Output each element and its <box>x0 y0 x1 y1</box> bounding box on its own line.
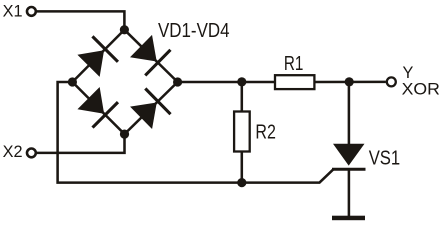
wire VS1 cathode lead to ground <box>348 169 351 216</box>
wire left node to bottom rail and gate of VS1 <box>58 82 334 183</box>
terminal Y <box>387 77 396 86</box>
wire bridge arm left-top <box>72 30 124 82</box>
ground <box>332 216 365 221</box>
svg-text:Y: Y <box>403 64 414 82</box>
wire R2 bottom lead <box>241 151 244 183</box>
terminal X1 <box>27 7 36 16</box>
junction R2 bottom <box>237 178 246 187</box>
svg-text:X1: X1 <box>3 3 23 21</box>
thyristor VS1 <box>332 144 366 169</box>
wire VS1 anode lead <box>348 82 351 145</box>
diode VD1 <box>76 36 118 78</box>
wire right node to R1 <box>178 81 276 84</box>
junction top node <box>120 25 129 34</box>
junction R1 right <box>345 77 354 86</box>
wire bridge arm left-bottom <box>72 82 124 134</box>
diode VD4 <box>128 88 170 130</box>
wire X1 lead to top node <box>37 11 124 29</box>
diode VD3 <box>76 85 118 127</box>
resistor R1 <box>275 75 314 89</box>
svg-text:XOR: XOR <box>402 81 440 99</box>
wire bridge arm top-right <box>124 30 177 82</box>
svg-text:VD1-VD4: VD1-VD4 <box>158 20 230 42</box>
junction R2 top <box>237 77 246 86</box>
terminal X2 <box>27 149 36 158</box>
wire R2 top lead <box>241 82 244 113</box>
junction right node <box>173 77 182 86</box>
svg-text:VS1: VS1 <box>369 148 401 170</box>
resistor R2 <box>234 112 250 152</box>
svg-text:X2: X2 <box>3 143 23 161</box>
wire R1 to terminal Y <box>314 81 386 84</box>
junction bottom node <box>120 130 129 139</box>
svg-text:R1: R1 <box>284 53 304 75</box>
junction left node <box>68 77 77 86</box>
wire X2 lead to bottom node <box>37 134 125 153</box>
wire bridge arm bottom-right <box>125 82 178 134</box>
diode VD2 <box>128 33 170 75</box>
svg-text:R2: R2 <box>255 121 276 143</box>
